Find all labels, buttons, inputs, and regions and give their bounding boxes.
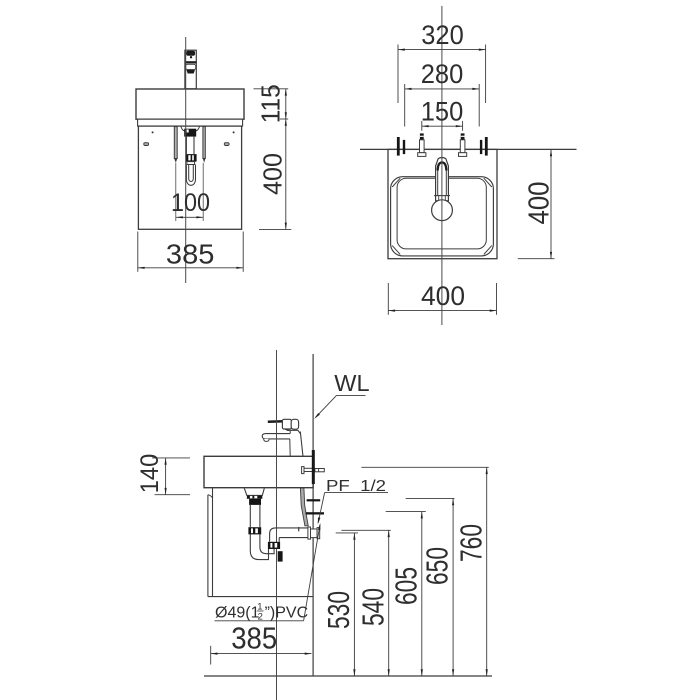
svg-text:140: 140 xyxy=(136,454,164,494)
svg-text:760: 760 xyxy=(453,524,488,562)
svg-text:WL: WL xyxy=(334,370,369,396)
svg-text:400: 400 xyxy=(421,281,465,311)
right supply rod front xyxy=(203,127,205,163)
dimension 530 xyxy=(321,533,358,676)
bowl corner facets xyxy=(392,178,492,254)
svg-text:650: 650 xyxy=(420,547,455,585)
bowl inner rim xyxy=(397,178,486,249)
tailpipe side xyxy=(250,505,260,527)
FRONT-VIEW xyxy=(136,37,291,283)
wall drain connector xyxy=(308,527,320,539)
wall anchor ticks xyxy=(397,137,488,156)
mounting bolt side xyxy=(302,467,325,474)
drain nut front xyxy=(186,154,197,162)
dimension 540 xyxy=(341,530,390,676)
wall mounting bar xyxy=(312,450,315,484)
basin drain flange side xyxy=(244,488,264,505)
svg-text:280: 280 xyxy=(421,59,464,89)
faucet side xyxy=(262,419,303,456)
dimension 385 front xyxy=(138,232,243,272)
outlet pipe to wall xyxy=(270,527,308,542)
dimension 650 xyxy=(406,498,455,676)
svg-text:385: 385 xyxy=(231,621,277,656)
wall line side xyxy=(312,354,314,676)
svg-text:605: 605 xyxy=(388,567,423,605)
svg-text:320: 320 xyxy=(421,20,464,50)
bowl outer rim xyxy=(391,177,494,256)
svg-text:400: 400 xyxy=(523,182,555,225)
left supply rod front xyxy=(174,127,177,163)
floor line xyxy=(204,675,492,677)
extension lines rods xyxy=(176,163,203,221)
counter square plan xyxy=(388,149,497,258)
centerline side xyxy=(276,350,278,700)
centerline front xyxy=(185,37,187,283)
dimension 115 and 400 front right xyxy=(254,84,292,229)
cabinet panel side xyxy=(208,488,213,597)
dimension 100 xyxy=(171,189,210,218)
dimension 385 side xyxy=(211,621,312,665)
basin under-rim front xyxy=(138,119,243,126)
trap elbow xyxy=(250,534,274,559)
svg-text:100: 100 xyxy=(171,189,210,217)
centerline plan xyxy=(441,6,443,325)
U-pipe front xyxy=(186,165,195,186)
svg-text:”)PVC: ”)PVC xyxy=(265,605,309,622)
dimension 280 xyxy=(405,59,480,127)
door handles xyxy=(144,143,229,146)
dimension 150 xyxy=(421,96,464,130)
supply stub ticks PF xyxy=(306,499,324,514)
wall line plan xyxy=(360,148,577,150)
trap nut lower xyxy=(268,542,280,549)
dimension 400 bottom plan xyxy=(388,281,496,315)
PLAN-VIEW xyxy=(360,6,577,325)
mounting bolt plan left xyxy=(418,133,426,156)
svg-text:150: 150 xyxy=(421,96,464,126)
pipe clamp block xyxy=(278,551,283,561)
svg-text:400: 400 xyxy=(257,153,287,195)
dimension 605 xyxy=(386,512,426,676)
cabinet front xyxy=(138,126,241,229)
drain circle plan xyxy=(432,200,453,221)
cabinet top notch xyxy=(181,126,200,131)
svg-text:530: 530 xyxy=(321,591,356,629)
drain throat dark block xyxy=(184,129,196,137)
svg-text:115: 115 xyxy=(256,84,286,123)
door pivot dots xyxy=(152,131,235,133)
dimension 320 xyxy=(398,20,486,103)
svg-text:Ø49(1: Ø49(1 xyxy=(215,605,260,622)
faucet spout plan xyxy=(434,158,450,202)
svg-text:540: 540 xyxy=(355,588,390,626)
label PF 1/2 xyxy=(318,478,388,524)
SIDE-VIEW xyxy=(136,350,492,700)
basin slab side xyxy=(204,456,313,487)
supply hose side xyxy=(300,488,308,526)
dimension 140 xyxy=(136,454,190,495)
basin front xyxy=(136,89,244,119)
trap nut upper xyxy=(248,527,261,534)
dimension 400 right plan xyxy=(518,149,556,258)
faucet front tower xyxy=(185,50,196,89)
drain bracket front xyxy=(187,162,195,165)
svg-text:385: 385 xyxy=(166,238,215,269)
label PVC diameter xyxy=(215,523,321,623)
mounting bolt plan right xyxy=(459,133,467,156)
cabinet bottom side xyxy=(208,596,313,598)
dimension 760 xyxy=(361,467,488,676)
drain pipe upper xyxy=(186,137,194,155)
label WL xyxy=(314,370,369,419)
